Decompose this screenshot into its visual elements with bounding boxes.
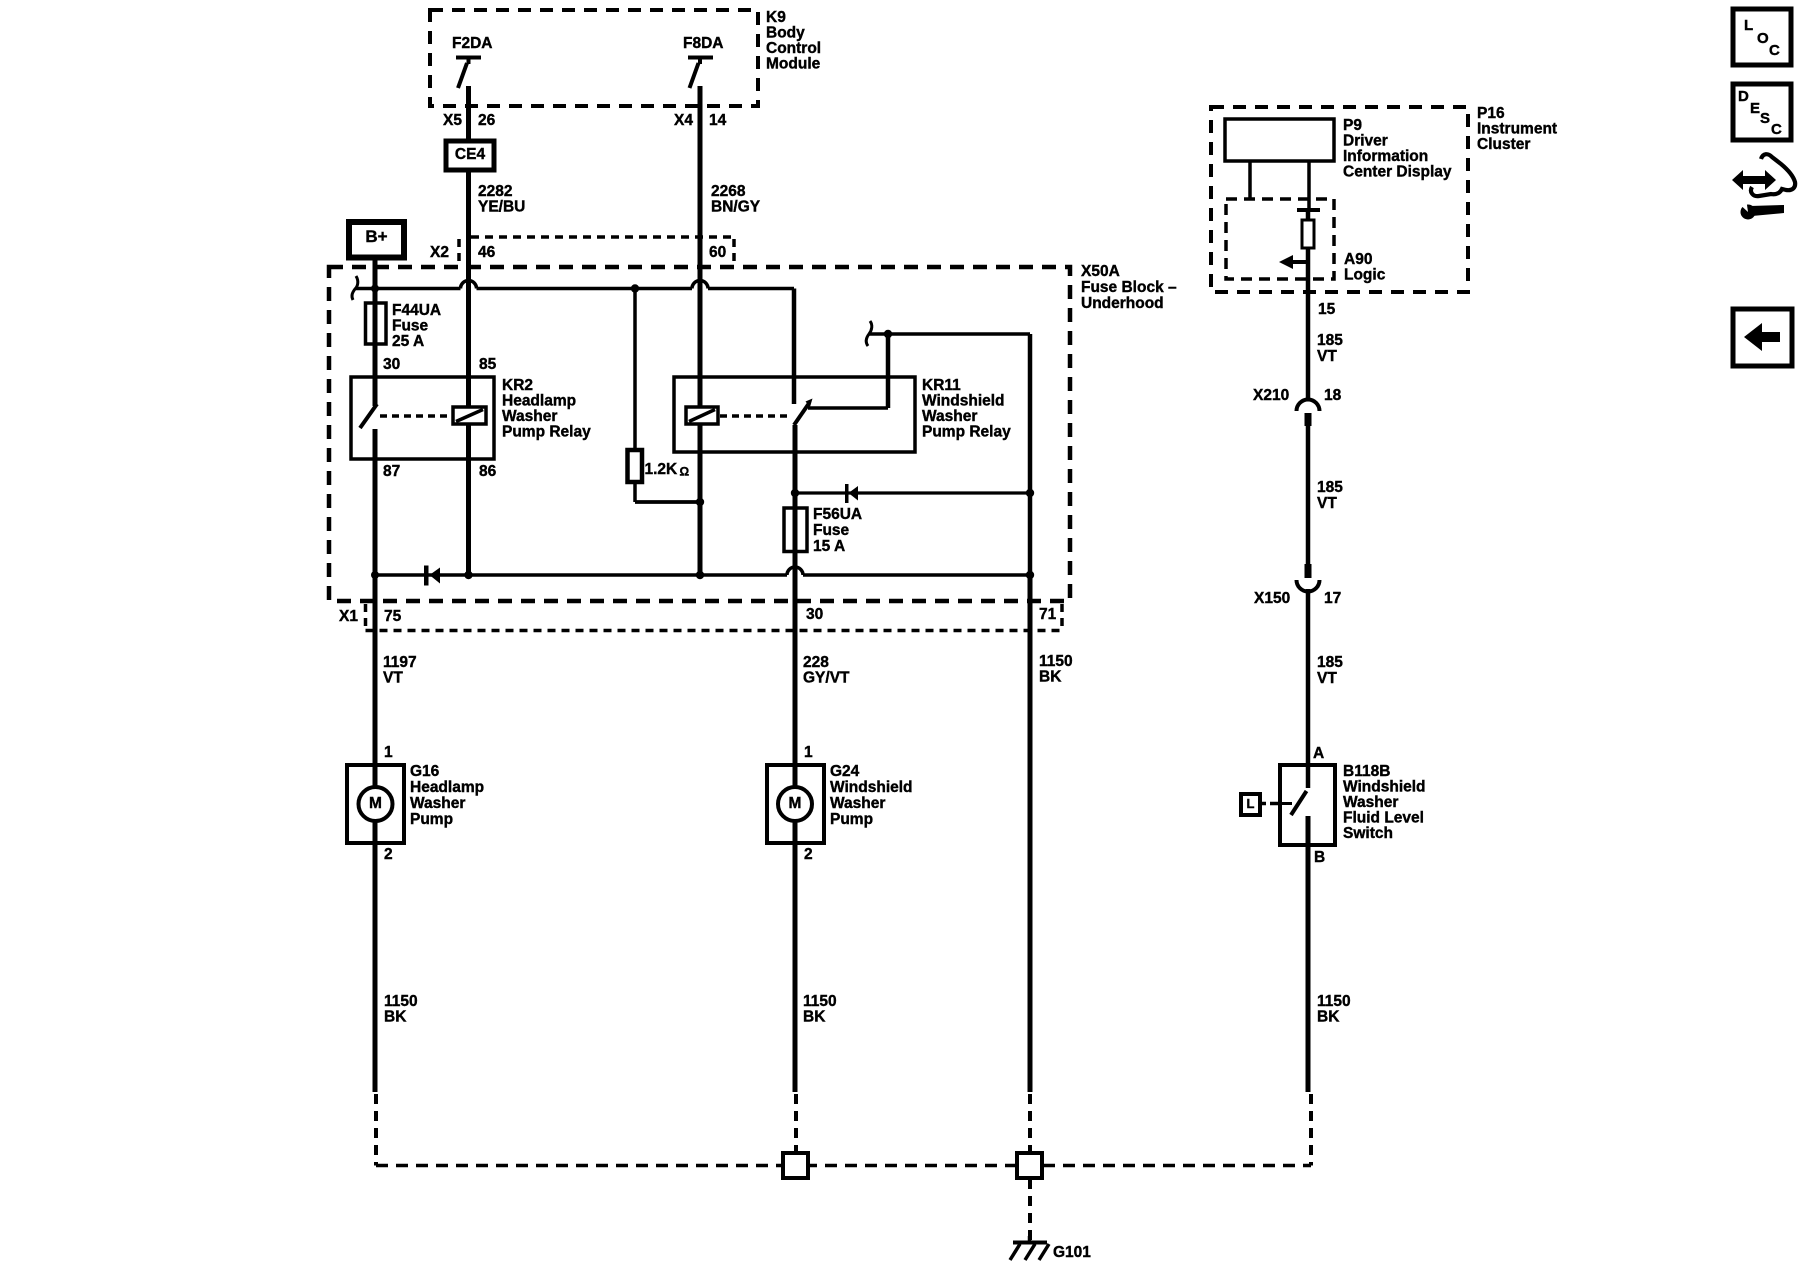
svg-text:Fuse: Fuse bbox=[392, 318, 429, 335]
svg-text:KR11: KR11 bbox=[922, 377, 961, 394]
svg-text:1: 1 bbox=[384, 744, 393, 761]
svg-text:Instrument: Instrument bbox=[1477, 121, 1557, 138]
svg-text:G24: G24 bbox=[830, 763, 860, 780]
svg-text:Pump Relay: Pump Relay bbox=[502, 424, 591, 441]
svg-text:B118B: B118B bbox=[1343, 763, 1390, 780]
svg-text:Module: Module bbox=[766, 56, 821, 73]
svg-text:Switch: Switch bbox=[1343, 825, 1393, 842]
svg-text:A: A bbox=[1313, 745, 1324, 762]
svg-text:17: 17 bbox=[1324, 590, 1341, 607]
svg-text:185: 185 bbox=[1317, 654, 1343, 671]
svg-text:Fuse: Fuse bbox=[813, 522, 850, 539]
svg-text:15: 15 bbox=[1318, 301, 1336, 318]
svg-text:86: 86 bbox=[479, 463, 497, 480]
svg-text:Fluid Level: Fluid Level bbox=[1343, 810, 1424, 827]
svg-text:1150: 1150 bbox=[1317, 993, 1351, 1010]
svg-text:Cluster: Cluster bbox=[1477, 136, 1530, 153]
svg-text:G16: G16 bbox=[410, 763, 440, 780]
svg-text:Center Display: Center Display bbox=[1343, 164, 1452, 181]
svg-text:F8DA: F8DA bbox=[683, 35, 723, 52]
svg-text:46: 46 bbox=[478, 244, 496, 261]
svg-text:185: 185 bbox=[1317, 332, 1343, 349]
svg-text:1.2K: 1.2K bbox=[645, 461, 679, 478]
svg-text:X5: X5 bbox=[443, 112, 462, 129]
svg-text:1: 1 bbox=[804, 744, 813, 761]
svg-text:B: B bbox=[1314, 849, 1325, 866]
svg-text:1150: 1150 bbox=[803, 993, 837, 1010]
svg-text:71: 71 bbox=[1039, 606, 1057, 623]
svg-text:60: 60 bbox=[709, 244, 726, 261]
svg-text:85: 85 bbox=[479, 356, 497, 373]
svg-text:Washer: Washer bbox=[410, 795, 465, 812]
svg-text:18: 18 bbox=[1324, 387, 1342, 404]
svg-text:Windshield: Windshield bbox=[922, 393, 1005, 410]
svg-text:D: D bbox=[1738, 88, 1749, 105]
svg-text:A90: A90 bbox=[1344, 251, 1372, 268]
svg-text:X2: X2 bbox=[430, 244, 449, 261]
svg-text:26: 26 bbox=[478, 112, 496, 129]
svg-text:2282: 2282 bbox=[478, 183, 512, 200]
svg-text:Headlamp: Headlamp bbox=[410, 779, 484, 796]
svg-text:X1: X1 bbox=[339, 608, 358, 625]
svg-text:Underhood: Underhood bbox=[1081, 295, 1164, 312]
svg-text:15 A: 15 A bbox=[813, 538, 845, 555]
svg-text:K9: K9 bbox=[766, 9, 786, 26]
svg-text:F44UA: F44UA bbox=[392, 302, 441, 319]
svg-text:Pump Relay: Pump Relay bbox=[922, 424, 1011, 441]
svg-text:VT: VT bbox=[1317, 348, 1337, 365]
svg-text:BK: BK bbox=[1039, 669, 1062, 686]
svg-text:228: 228 bbox=[803, 654, 829, 671]
svg-text:75: 75 bbox=[384, 608, 402, 625]
svg-text:G101: G101 bbox=[1053, 1244, 1091, 1261]
svg-text:M: M bbox=[789, 795, 802, 812]
svg-text:Headlamp: Headlamp bbox=[502, 393, 576, 410]
svg-text:BK: BK bbox=[1317, 1009, 1340, 1026]
svg-text:1197: 1197 bbox=[383, 654, 417, 671]
svg-text:Pump: Pump bbox=[410, 811, 453, 828]
svg-text:Windshield: Windshield bbox=[830, 779, 913, 796]
svg-text:X210: X210 bbox=[1253, 387, 1289, 404]
svg-text:Ω: Ω bbox=[680, 465, 690, 479]
svg-text:Body: Body bbox=[766, 25, 805, 42]
svg-text:BK: BK bbox=[384, 1009, 407, 1026]
svg-text:KR2: KR2 bbox=[502, 377, 533, 394]
svg-text:Driver: Driver bbox=[1343, 133, 1388, 150]
svg-text:L: L bbox=[1744, 17, 1753, 34]
svg-text:Washer: Washer bbox=[922, 408, 977, 425]
svg-text:87: 87 bbox=[383, 463, 400, 480]
svg-text:F56UA: F56UA bbox=[813, 506, 862, 523]
svg-text:VT: VT bbox=[383, 670, 403, 687]
svg-text:P16: P16 bbox=[1477, 105, 1505, 122]
svg-text:Washer: Washer bbox=[1343, 794, 1398, 811]
svg-text:S: S bbox=[1760, 110, 1770, 127]
svg-text:BN/GY: BN/GY bbox=[711, 199, 761, 216]
svg-text:X4: X4 bbox=[674, 112, 693, 129]
svg-text:Pump: Pump bbox=[830, 811, 873, 828]
svg-text:1150: 1150 bbox=[384, 993, 418, 1010]
svg-text:GY/VT: GY/VT bbox=[803, 670, 850, 687]
svg-text:1150: 1150 bbox=[1039, 653, 1073, 670]
svg-text:30: 30 bbox=[383, 356, 400, 373]
svg-text:Logic: Logic bbox=[1344, 267, 1386, 284]
svg-text:Information: Information bbox=[1343, 148, 1428, 165]
svg-text:30: 30 bbox=[806, 606, 823, 623]
svg-text:Washer: Washer bbox=[502, 408, 557, 425]
svg-text:B+: B+ bbox=[365, 227, 387, 246]
svg-text:Windshield: Windshield bbox=[1343, 779, 1426, 796]
svg-text:Washer: Washer bbox=[830, 795, 885, 812]
svg-text:2268: 2268 bbox=[711, 183, 746, 200]
svg-text:O: O bbox=[1757, 30, 1769, 47]
svg-text:X50A: X50A bbox=[1081, 263, 1120, 280]
svg-text:2: 2 bbox=[804, 846, 813, 863]
svg-text:M: M bbox=[369, 795, 382, 812]
svg-text:P9: P9 bbox=[1343, 117, 1362, 134]
svg-text:2: 2 bbox=[384, 846, 393, 863]
svg-text:X150: X150 bbox=[1254, 590, 1290, 607]
svg-text:185: 185 bbox=[1317, 479, 1343, 496]
svg-text:C: C bbox=[1771, 121, 1782, 138]
svg-text:F2DA: F2DA bbox=[452, 35, 492, 52]
svg-text:BK: BK bbox=[803, 1009, 826, 1026]
svg-text:VT: VT bbox=[1317, 495, 1337, 512]
svg-text:C: C bbox=[1769, 42, 1780, 59]
svg-text:Control: Control bbox=[766, 40, 821, 57]
svg-text:Fuse Block –: Fuse Block – bbox=[1081, 279, 1177, 296]
svg-text:14: 14 bbox=[709, 112, 727, 129]
svg-text:25 A: 25 A bbox=[392, 333, 424, 350]
svg-text:CE4: CE4 bbox=[455, 146, 486, 163]
svg-text:YE/BU: YE/BU bbox=[478, 199, 525, 216]
svg-text:E: E bbox=[1750, 100, 1760, 117]
svg-text:VT: VT bbox=[1317, 670, 1337, 687]
svg-text:L: L bbox=[1247, 796, 1255, 811]
